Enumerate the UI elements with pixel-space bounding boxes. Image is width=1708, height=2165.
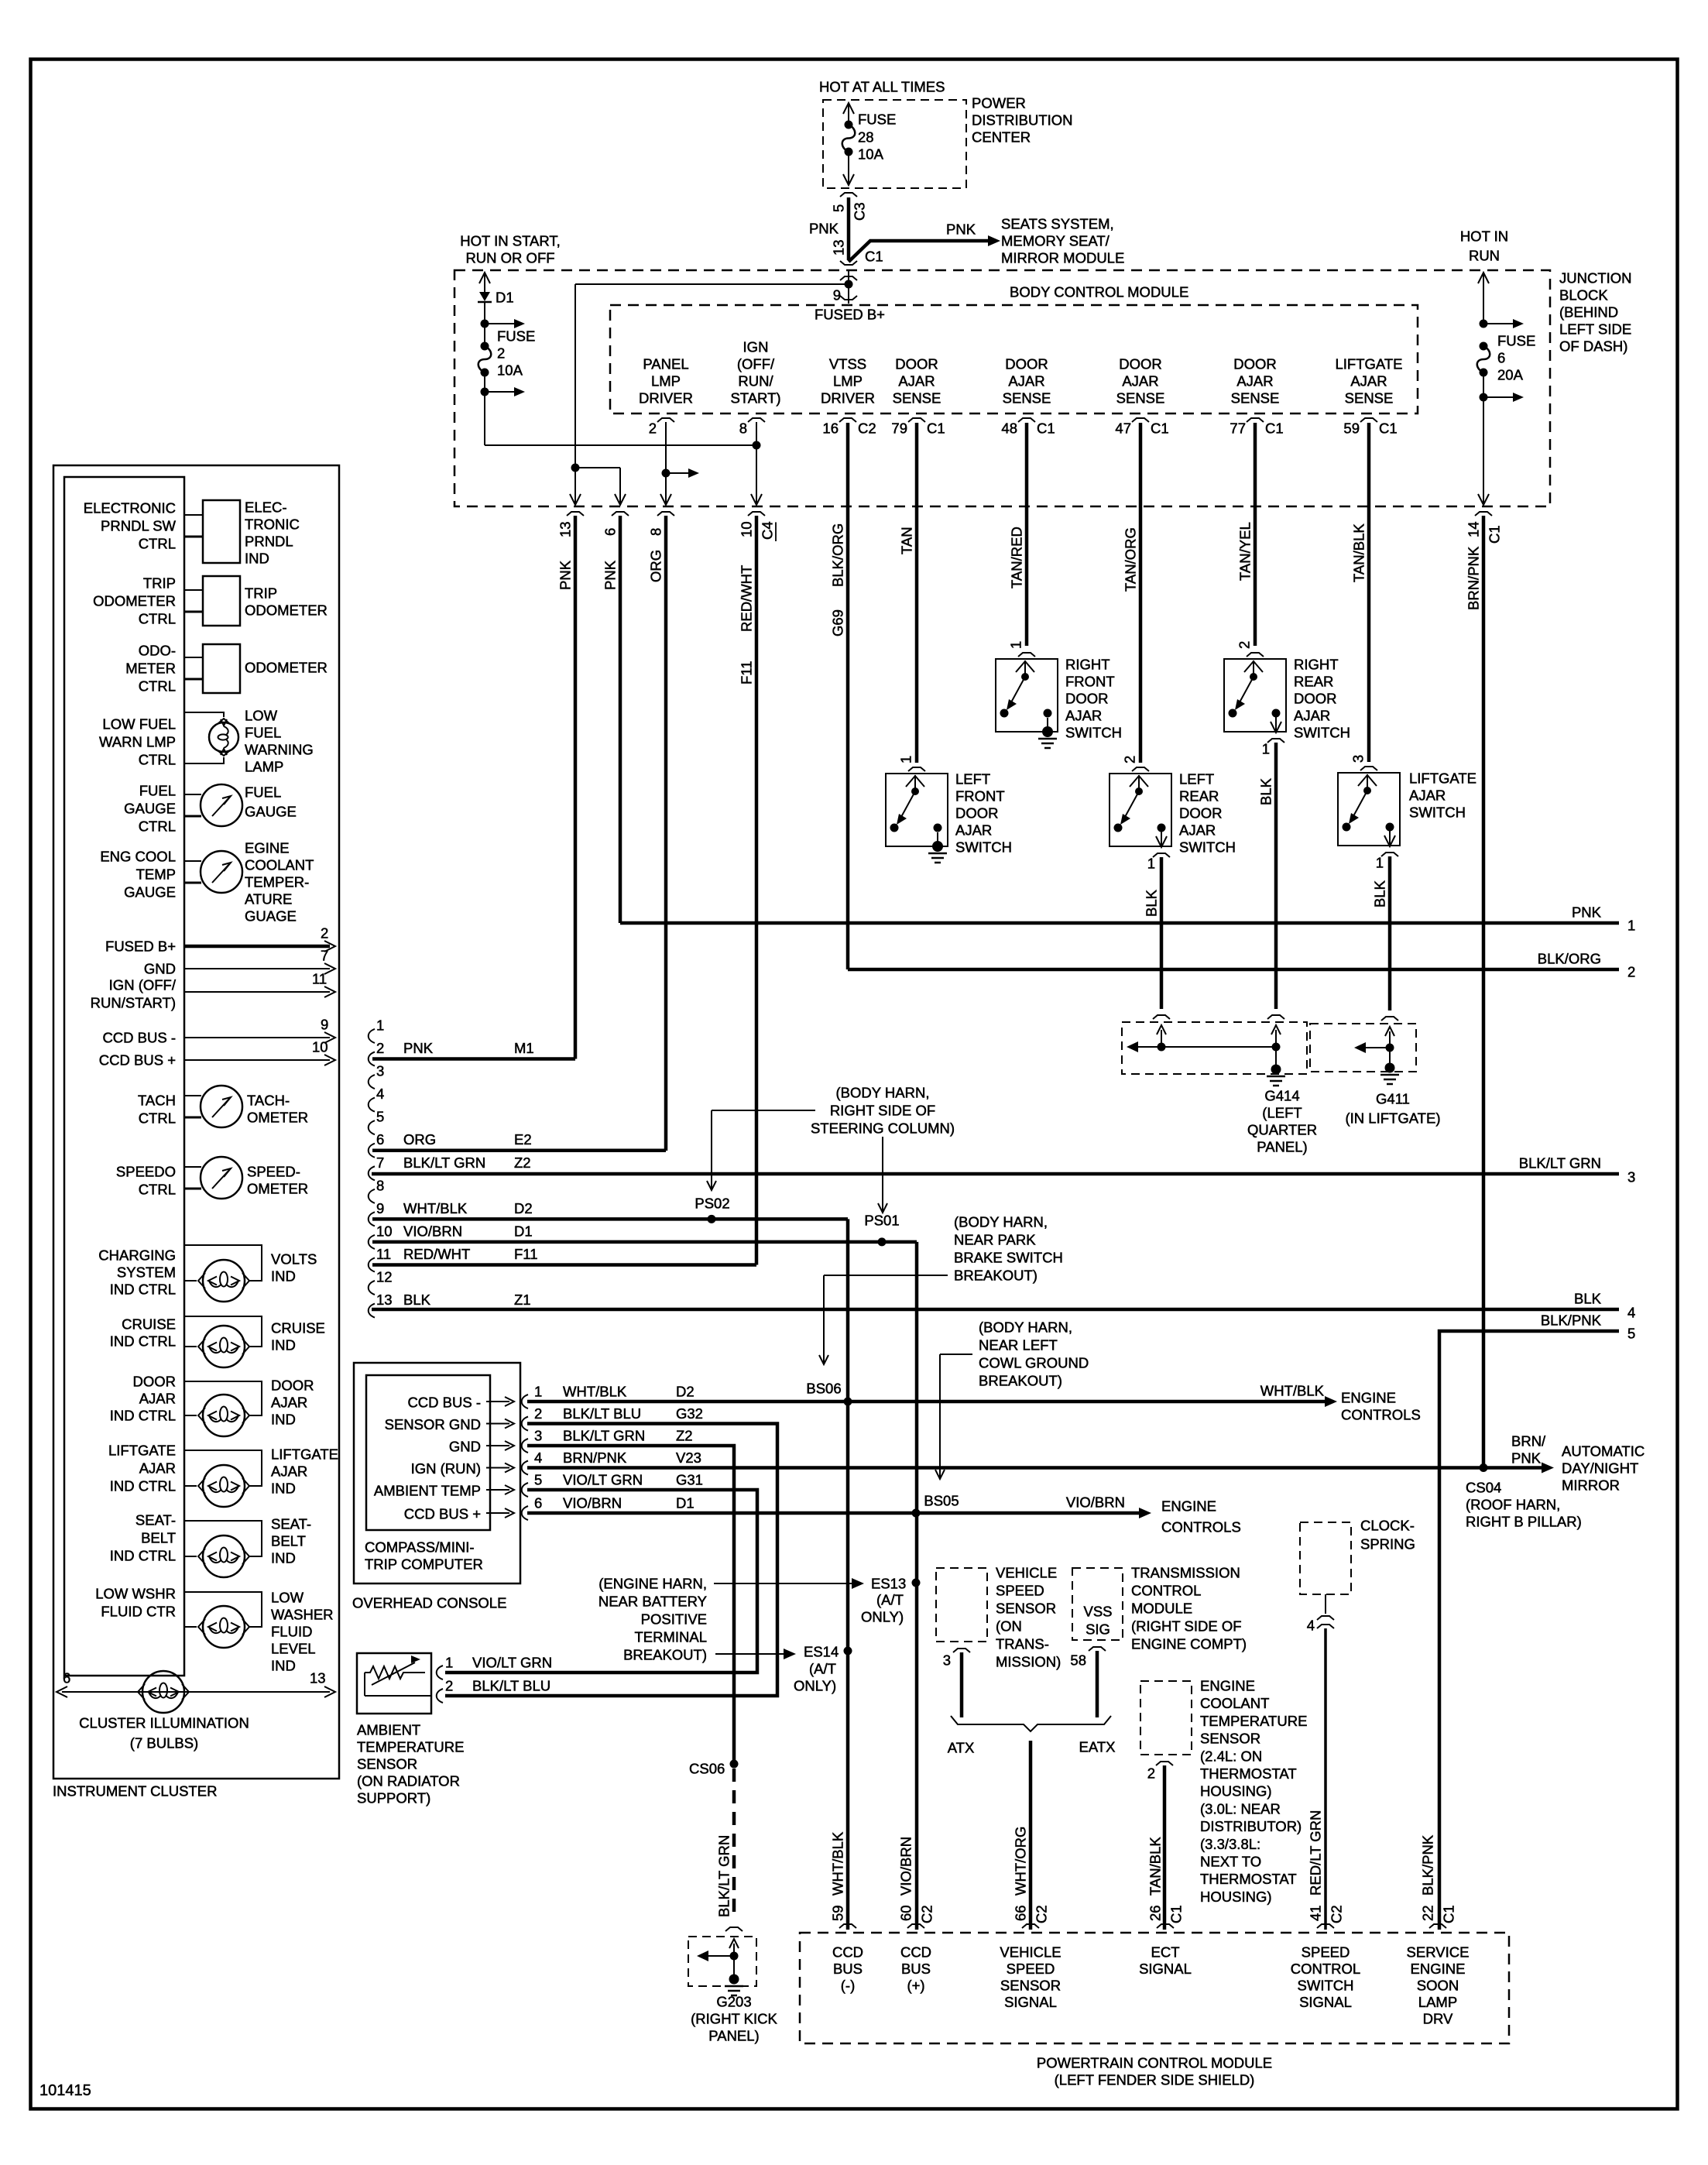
- svg-text:BLK/ORG: BLK/ORG: [830, 523, 846, 587]
- svg-text:DRIVER: DRIVER: [639, 390, 693, 407]
- svg-text:60: 60: [898, 1905, 914, 1921]
- svg-text:22: 22: [1420, 1905, 1436, 1921]
- svg-text:IND: IND: [271, 1481, 296, 1497]
- svg-text:GND: GND: [449, 1439, 481, 1455]
- svg-text:DOOR: DOOR: [1294, 691, 1337, 707]
- svg-text:FRONT: FRONT: [955, 788, 1005, 805]
- svg-text:(IN LIFTGATE): (IN LIFTGATE): [1346, 1110, 1441, 1127]
- svg-text:PNK: PNK: [809, 221, 839, 237]
- svg-text:SWITCH: SWITCH: [1294, 725, 1350, 741]
- svg-text:ONLY): ONLY): [861, 1609, 904, 1625]
- svg-text:G32: G32: [676, 1405, 703, 1422]
- svg-text:1: 1: [1376, 855, 1384, 871]
- svg-text:LMP: LMP: [651, 373, 681, 389]
- svg-text:DOOR: DOOR: [271, 1378, 314, 1394]
- svg-text:DOOR: DOOR: [895, 356, 938, 372]
- svg-text:V23: V23: [676, 1450, 701, 1466]
- svg-text:SPEED-: SPEED-: [247, 1164, 300, 1180]
- svg-text:11: 11: [312, 971, 327, 987]
- svg-text:4: 4: [376, 1086, 384, 1102]
- svg-text:VEHICLE: VEHICLE: [1000, 1944, 1061, 1961]
- svg-text:CLUSTER ILLUMINATION: CLUSTER ILLUMINATION: [79, 1715, 249, 1731]
- svg-text:INSTRUMENT CLUSTER: INSTRUMENT CLUSTER: [53, 1783, 217, 1800]
- svg-text:TRONIC: TRONIC: [245, 516, 300, 533]
- svg-text:5: 5: [534, 1472, 542, 1488]
- svg-text:SENSE: SENSE: [1345, 390, 1394, 407]
- svg-text:FUSED B+: FUSED B+: [105, 938, 176, 955]
- svg-text:PANEL): PANEL): [1257, 1139, 1307, 1155]
- svg-text:AJAR: AJAR: [139, 1391, 176, 1407]
- svg-text:IND CTRL: IND CTRL: [110, 1282, 176, 1298]
- svg-text:10A: 10A: [858, 146, 884, 163]
- svg-text:G414: G414: [1264, 1088, 1299, 1104]
- svg-text:2: 2: [649, 420, 657, 437]
- svg-text:IGN (OFF/: IGN (OFF/: [109, 977, 177, 993]
- svg-text:AJAR: AJAR: [1065, 708, 1102, 724]
- svg-text:POSITIVE: POSITIVE: [641, 1611, 707, 1628]
- svg-text:ECT: ECT: [1151, 1944, 1180, 1961]
- svg-text:TRIP: TRIP: [143, 575, 176, 592]
- svg-text:7: 7: [321, 948, 328, 964]
- svg-text:PNK: PNK: [557, 560, 574, 590]
- svg-text:RIGHT: RIGHT: [1065, 657, 1110, 673]
- svg-text:METER: METER: [125, 660, 176, 677]
- svg-text:CS04: CS04: [1466, 1480, 1501, 1496]
- svg-text:IND: IND: [245, 551, 269, 567]
- svg-text:ONLY): ONLY): [794, 1678, 836, 1694]
- svg-text:ODOMETER: ODOMETER: [93, 593, 176, 609]
- svg-text:CCD BUS +: CCD BUS +: [99, 1052, 176, 1069]
- svg-text:GAUGE: GAUGE: [124, 801, 176, 817]
- svg-text:FUEL: FUEL: [245, 725, 281, 741]
- svg-text:CTRL: CTRL: [139, 611, 176, 627]
- svg-text:G203: G203: [716, 1994, 751, 2010]
- svg-text:NEXT TO: NEXT TO: [1200, 1854, 1261, 1870]
- svg-text:1: 1: [898, 756, 914, 763]
- svg-text:TAN/ORG: TAN/ORG: [1123, 527, 1139, 592]
- svg-text:HOUSING): HOUSING): [1200, 1783, 1272, 1800]
- svg-text:Z2: Z2: [514, 1155, 531, 1171]
- svg-text:79: 79: [891, 420, 907, 437]
- svg-text:AJAR: AJAR: [1294, 708, 1330, 724]
- svg-text:20A: 20A: [1497, 367, 1524, 383]
- svg-text:(A/T: (A/T: [809, 1661, 836, 1677]
- svg-text:POWER: POWER: [972, 95, 1026, 112]
- svg-text:AJAR: AJAR: [1409, 787, 1446, 804]
- svg-text:Z2: Z2: [676, 1428, 693, 1444]
- svg-text:RED/WHT: RED/WHT: [403, 1246, 470, 1262]
- svg-text:CONTROL: CONTROL: [1131, 1583, 1201, 1599]
- svg-text:VIO/BRN: VIO/BRN: [563, 1495, 622, 1511]
- svg-text:C1: C1: [1151, 420, 1169, 437]
- svg-text:LEFT SIDE: LEFT SIDE: [1559, 321, 1631, 338]
- svg-text:HOUSING): HOUSING): [1200, 1889, 1272, 1905]
- svg-text:CRUISE: CRUISE: [271, 1320, 325, 1336]
- svg-text:(RIGHT SIDE OF: (RIGHT SIDE OF: [1131, 1618, 1242, 1635]
- svg-text:NEAR PARK: NEAR PARK: [954, 1232, 1036, 1248]
- svg-text:SPEED: SPEED: [996, 1583, 1044, 1599]
- svg-text:IND CTRL: IND CTRL: [110, 1548, 176, 1564]
- svg-text:66: 66: [1013, 1905, 1029, 1921]
- svg-text:ODO-: ODO-: [139, 643, 176, 659]
- svg-text:VTSS: VTSS: [829, 356, 866, 372]
- svg-text:MIRROR MODULE: MIRROR MODULE: [1001, 250, 1124, 266]
- svg-text:TAN: TAN: [899, 527, 915, 554]
- svg-text:BS06: BS06: [806, 1381, 841, 1397]
- svg-text:BLK: BLK: [1258, 777, 1274, 805]
- svg-text:SWITCH: SWITCH: [955, 839, 1012, 856]
- svg-text:BS05: BS05: [924, 1493, 959, 1509]
- svg-text:3: 3: [534, 1428, 542, 1444]
- svg-text:LOW: LOW: [271, 1590, 304, 1606]
- svg-text:(LEFT: (LEFT: [1262, 1105, 1302, 1121]
- svg-text:2: 2: [376, 1040, 384, 1056]
- svg-text:CCD BUS -: CCD BUS -: [407, 1395, 481, 1411]
- svg-text:SENSE: SENSE: [893, 390, 941, 407]
- svg-text:IGN: IGN: [743, 339, 769, 355]
- svg-text:16: 16: [822, 420, 839, 437]
- svg-text:D2: D2: [676, 1384, 695, 1400]
- svg-text:6: 6: [534, 1495, 542, 1511]
- svg-text:3: 3: [1350, 755, 1367, 763]
- svg-text:AMBIENT: AMBIENT: [357, 1722, 420, 1738]
- svg-text:CCD: CCD: [900, 1944, 931, 1961]
- svg-text:DOOR: DOOR: [1179, 805, 1223, 822]
- svg-text:77: 77: [1230, 420, 1246, 437]
- svg-text:D2: D2: [514, 1200, 533, 1216]
- svg-text:BLK/PNK: BLK/PNK: [1420, 1834, 1436, 1896]
- svg-text:(+): (+): [907, 1978, 924, 1994]
- svg-text:10: 10: [739, 521, 755, 537]
- svg-text:SUPPORT): SUPPORT): [357, 1790, 430, 1806]
- svg-text:ODOMETER: ODOMETER: [245, 602, 328, 619]
- svg-text:SIGNAL: SIGNAL: [1299, 1994, 1352, 2010]
- svg-text:START): START): [730, 390, 780, 407]
- svg-text:FUSE: FUSE: [1497, 333, 1535, 349]
- svg-text:(LEFT FENDER SIDE SHIELD): (LEFT FENDER SIDE SHIELD): [1055, 2072, 1255, 2088]
- svg-text:BRN/: BRN/: [1511, 1433, 1546, 1450]
- svg-text:EGINE: EGINE: [245, 840, 290, 856]
- svg-text:EATX: EATX: [1079, 1739, 1116, 1755]
- svg-text:13: 13: [310, 1670, 326, 1686]
- svg-text:BREAKOUT): BREAKOUT): [623, 1647, 707, 1663]
- svg-text:CONTROLS: CONTROLS: [1161, 1519, 1241, 1535]
- svg-text:DRIVER: DRIVER: [821, 390, 875, 407]
- svg-text:COOLANT: COOLANT: [245, 857, 314, 873]
- svg-text:CONTROLS: CONTROLS: [1341, 1407, 1421, 1423]
- svg-text:PANEL: PANEL: [643, 356, 688, 372]
- svg-text:TAN/BLK: TAN/BLK: [1351, 523, 1367, 582]
- svg-text:OVERHEAD CONSOLE: OVERHEAD CONSOLE: [352, 1595, 506, 1611]
- svg-text:BLOCK: BLOCK: [1559, 287, 1608, 304]
- svg-text:BUS: BUS: [833, 1961, 863, 1977]
- svg-text:BLK/LT GRN: BLK/LT GRN: [1519, 1155, 1601, 1172]
- svg-text:AUTOMATIC: AUTOMATIC: [1562, 1443, 1645, 1460]
- svg-text:IND: IND: [271, 1337, 296, 1354]
- svg-text:BLK/LT GRN: BLK/LT GRN: [716, 1835, 732, 1917]
- svg-text:FUSE: FUSE: [497, 328, 535, 345]
- svg-text:TEMPERATURE: TEMPERATURE: [1200, 1713, 1307, 1729]
- svg-text:9: 9: [321, 1017, 328, 1033]
- svg-text:TERMINAL: TERMINAL: [634, 1629, 707, 1645]
- svg-text:G31: G31: [676, 1472, 703, 1488]
- svg-text:FLUID: FLUID: [271, 1624, 312, 1640]
- svg-text:ES14: ES14: [804, 1644, 839, 1660]
- svg-text:HOT IN: HOT IN: [1460, 228, 1508, 245]
- svg-text:PS01: PS01: [864, 1213, 899, 1229]
- svg-text:ES13: ES13: [871, 1576, 906, 1592]
- svg-text:TAN/YEL: TAN/YEL: [1237, 522, 1254, 581]
- svg-text:LOW: LOW: [245, 708, 278, 724]
- svg-text:ENGINE: ENGINE: [1200, 1678, 1255, 1694]
- svg-text:BELT: BELT: [141, 1530, 176, 1546]
- svg-text:WHT/BLK: WHT/BLK: [1260, 1383, 1325, 1399]
- svg-text:101415: 101415: [39, 2082, 91, 2099]
- svg-text:VIO/BRN: VIO/BRN: [1066, 1494, 1125, 1511]
- svg-text:AJAR: AJAR: [898, 373, 935, 389]
- svg-text:COOLANT: COOLANT: [1200, 1695, 1269, 1711]
- svg-text:SENSOR: SENSOR: [1200, 1731, 1260, 1747]
- svg-text:BLK/ORG: BLK/ORG: [1538, 951, 1601, 967]
- svg-text:TACH-: TACH-: [247, 1093, 290, 1109]
- svg-text:(3.0L: NEAR: (3.0L: NEAR: [1200, 1800, 1281, 1817]
- svg-text:(ENGINE HARN,: (ENGINE HARN,: [598, 1576, 707, 1592]
- svg-text:BODY CONTROL MODULE: BODY CONTROL MODULE: [1010, 284, 1188, 300]
- svg-text:BLK/LT GRN: BLK/LT GRN: [403, 1155, 485, 1171]
- svg-text:RIGHT SIDE OF: RIGHT SIDE OF: [830, 1103, 935, 1119]
- svg-text:NEAR BATTERY: NEAR BATTERY: [598, 1594, 707, 1610]
- svg-text:C1: C1: [927, 420, 945, 437]
- svg-text:MEMORY SEAT/: MEMORY SEAT/: [1001, 233, 1110, 249]
- svg-text:DOOR: DOOR: [133, 1374, 177, 1390]
- svg-text:HOT AT ALL TIMES: HOT AT ALL TIMES: [819, 79, 945, 95]
- svg-text:PNK: PNK: [403, 1040, 434, 1056]
- svg-text:RUN/START): RUN/START): [91, 995, 176, 1011]
- svg-text:2: 2: [321, 925, 328, 942]
- svg-text:(ON: (ON: [996, 1618, 1022, 1635]
- svg-text:7: 7: [376, 1155, 384, 1171]
- svg-text:3: 3: [1627, 1169, 1635, 1185]
- svg-text:58: 58: [1070, 1652, 1086, 1669]
- svg-text:(BODY HARN,: (BODY HARN,: [979, 1319, 1072, 1336]
- svg-text:10: 10: [312, 1039, 328, 1055]
- svg-text:ELEC-: ELEC-: [245, 499, 287, 516]
- svg-text:TAN/BLK: TAN/BLK: [1147, 1837, 1164, 1896]
- svg-text:SYSTEM: SYSTEM: [117, 1264, 176, 1281]
- svg-text:(BODY HARN,: (BODY HARN,: [954, 1214, 1048, 1230]
- svg-text:WASHER: WASHER: [271, 1607, 334, 1623]
- svg-text:SIGNAL: SIGNAL: [1004, 1994, 1057, 2010]
- svg-text:14: 14: [1466, 521, 1482, 537]
- svg-text:SWITCH: SWITCH: [1065, 725, 1122, 741]
- svg-text:6: 6: [602, 528, 619, 536]
- svg-text:STEERING COLUMN): STEERING COLUMN): [811, 1120, 955, 1137]
- svg-text:RIGHT B PILLAR): RIGHT B PILLAR): [1466, 1514, 1582, 1530]
- svg-text:13: 13: [831, 239, 847, 256]
- svg-text:SPEED: SPEED: [1302, 1944, 1350, 1961]
- svg-text:TRIP: TRIP: [245, 585, 277, 602]
- svg-text:SPRING: SPRING: [1360, 1536, 1415, 1553]
- svg-text:D1: D1: [514, 1223, 533, 1239]
- svg-text:8: 8: [376, 1177, 384, 1193]
- svg-text:TRANSMISSION: TRANSMISSION: [1131, 1565, 1240, 1581]
- svg-text:4: 4: [1307, 1618, 1315, 1634]
- svg-text:CTRL: CTRL: [139, 1110, 176, 1127]
- svg-text:BREAKOUT): BREAKOUT): [954, 1268, 1037, 1284]
- svg-text:FLUID CTR: FLUID CTR: [101, 1604, 176, 1620]
- svg-text:TEMPERATURE: TEMPERATURE: [357, 1739, 464, 1755]
- svg-text:DOOR: DOOR: [1233, 356, 1277, 372]
- svg-text:MODULE: MODULE: [1131, 1601, 1192, 1617]
- svg-text:CCD BUS -: CCD BUS -: [102, 1030, 176, 1046]
- svg-text:GND: GND: [144, 961, 176, 977]
- svg-text:AJAR: AJAR: [1350, 373, 1387, 389]
- svg-text:C1: C1: [865, 249, 883, 265]
- svg-text:BLK: BLK: [403, 1292, 431, 1308]
- svg-text:BLK/LT GRN: BLK/LT GRN: [563, 1428, 645, 1444]
- svg-text:QUARTER: QUARTER: [1247, 1122, 1317, 1138]
- svg-text:6: 6: [1497, 350, 1505, 366]
- svg-text:C1: C1: [1487, 525, 1503, 544]
- svg-text:C1: C1: [1265, 420, 1284, 437]
- svg-text:BRN/PNK: BRN/PNK: [1466, 546, 1482, 610]
- svg-text:CTRL: CTRL: [139, 752, 176, 768]
- svg-text:SWITCH: SWITCH: [1298, 1978, 1354, 1994]
- svg-text:9: 9: [376, 1200, 384, 1216]
- svg-text:47: 47: [1115, 420, 1131, 437]
- svg-text:LIFTGATE: LIFTGATE: [108, 1443, 176, 1459]
- svg-text:13: 13: [557, 521, 574, 537]
- svg-text:SEAT-: SEAT-: [135, 1512, 176, 1529]
- svg-text:JUNCTION: JUNCTION: [1559, 270, 1632, 286]
- svg-text:CTRL: CTRL: [139, 818, 176, 835]
- svg-text:ENGINE: ENGINE: [1161, 1498, 1216, 1515]
- svg-text:MIRROR: MIRROR: [1562, 1477, 1620, 1494]
- svg-text:IND: IND: [271, 1550, 296, 1566]
- svg-text:(BODY HARN,: (BODY HARN,: [836, 1085, 930, 1101]
- svg-text:D1: D1: [496, 290, 514, 306]
- svg-text:TACH: TACH: [138, 1093, 176, 1109]
- svg-text:ENGINE COMPT): ENGINE COMPT): [1131, 1636, 1247, 1652]
- svg-text:IND CTRL: IND CTRL: [110, 1333, 176, 1350]
- svg-text:OF DASH): OF DASH): [1559, 338, 1627, 355]
- svg-text:2: 2: [1236, 641, 1253, 649]
- svg-text:TRANS-: TRANS-: [996, 1636, 1049, 1652]
- svg-text:59: 59: [830, 1905, 846, 1921]
- svg-text:C2: C2: [919, 1905, 935, 1923]
- svg-text:SENSE: SENSE: [1003, 390, 1051, 407]
- svg-text:CONTROL: CONTROL: [1291, 1961, 1360, 1977]
- svg-text:CHARGING: CHARGING: [98, 1247, 176, 1264]
- svg-text:59: 59: [1343, 420, 1360, 437]
- svg-text:2: 2: [1122, 756, 1138, 763]
- svg-text:SWITCH: SWITCH: [1179, 839, 1236, 856]
- svg-text:PNK: PNK: [1511, 1450, 1542, 1467]
- svg-text:AJAR: AJAR: [271, 1395, 307, 1411]
- svg-text:REAR: REAR: [1179, 788, 1219, 805]
- svg-text:AJAR: AJAR: [1236, 373, 1273, 389]
- svg-text:(ON RADIATOR: (ON RADIATOR: [357, 1773, 460, 1789]
- svg-text:COMPASS/MINI-: COMPASS/MINI-: [365, 1539, 475, 1556]
- svg-text:1: 1: [445, 1655, 453, 1671]
- svg-text:C2: C2: [858, 420, 876, 437]
- svg-text:BLK/LT BLU: BLK/LT BLU: [563, 1405, 641, 1422]
- svg-text:SOON: SOON: [1417, 1978, 1459, 1994]
- svg-text:GAUGE: GAUGE: [124, 884, 176, 901]
- svg-text:ENG COOL: ENG COOL: [100, 849, 176, 865]
- svg-text:12: 12: [376, 1269, 393, 1285]
- svg-text:WARNING: WARNING: [245, 742, 314, 758]
- svg-text:PNK: PNK: [1572, 904, 1602, 921]
- svg-text:2: 2: [1627, 964, 1635, 980]
- svg-text:NEAR LEFT: NEAR LEFT: [979, 1337, 1058, 1354]
- svg-text:SWITCH: SWITCH: [1409, 805, 1466, 821]
- svg-text:3: 3: [376, 1063, 384, 1079]
- svg-text:MISSION): MISSION): [996, 1654, 1061, 1670]
- svg-text:GUAGE: GUAGE: [245, 908, 297, 925]
- svg-text:BUS: BUS: [901, 1961, 931, 1977]
- svg-text:FUSE: FUSE: [858, 112, 896, 128]
- svg-text:SIGNAL: SIGNAL: [1139, 1961, 1192, 1977]
- svg-text:9: 9: [833, 287, 841, 304]
- svg-text:E2: E2: [514, 1131, 532, 1148]
- svg-text:OMETER: OMETER: [247, 1181, 308, 1197]
- svg-text:LAMP: LAMP: [245, 759, 283, 775]
- svg-text:LEFT: LEFT: [1179, 771, 1214, 787]
- svg-text:OMETER: OMETER: [247, 1110, 308, 1126]
- svg-text:REAR: REAR: [1294, 674, 1333, 690]
- svg-text:GAUGE: GAUGE: [245, 804, 297, 820]
- svg-text:1: 1: [1147, 856, 1155, 872]
- svg-text:COWL GROUND: COWL GROUND: [979, 1355, 1089, 1371]
- svg-text:48: 48: [1001, 420, 1017, 437]
- svg-text:LIFTGATE: LIFTGATE: [1409, 770, 1476, 787]
- svg-text:5: 5: [376, 1109, 384, 1125]
- svg-text:CENTER: CENTER: [972, 129, 1031, 146]
- svg-text:CTRL: CTRL: [139, 536, 176, 552]
- svg-text:2: 2: [1147, 1765, 1155, 1782]
- svg-text:BREAKOUT): BREAKOUT): [979, 1373, 1062, 1389]
- svg-text:POWERTRAIN CONTROL MODULE: POWERTRAIN CONTROL MODULE: [1037, 2055, 1272, 2071]
- svg-text:(BEHIND: (BEHIND: [1559, 304, 1618, 321]
- svg-text:VEHICLE: VEHICLE: [996, 1565, 1057, 1581]
- svg-text:(-): (-): [841, 1978, 855, 1994]
- svg-text:FUSED B+: FUSED B+: [815, 307, 885, 323]
- svg-text:RUN: RUN: [1469, 248, 1500, 264]
- svg-text:BLK: BLK: [1372, 880, 1388, 908]
- svg-text:6: 6: [376, 1131, 384, 1148]
- svg-text:ORG: ORG: [648, 550, 664, 582]
- svg-text:VIO/BRN: VIO/BRN: [403, 1223, 462, 1239]
- svg-text:TRIP COMPUTER: TRIP COMPUTER: [365, 1556, 483, 1573]
- svg-text:AMBIENT TEMP: AMBIENT TEMP: [374, 1483, 481, 1499]
- svg-text:DRV: DRV: [1423, 2011, 1453, 2027]
- svg-text:1: 1: [1262, 741, 1270, 757]
- svg-text:M1: M1: [514, 1040, 534, 1056]
- svg-text:IGN (RUN): IGN (RUN): [411, 1460, 481, 1477]
- svg-text:WHT/BLK: WHT/BLK: [563, 1384, 627, 1400]
- svg-text:SPEED: SPEED: [1007, 1961, 1055, 1977]
- svg-text:1: 1: [1627, 918, 1635, 934]
- svg-text:PNK: PNK: [946, 221, 976, 238]
- svg-text:LAMP: LAMP: [1418, 1994, 1457, 2010]
- svg-text:10: 10: [376, 1223, 393, 1239]
- svg-text:VIO/LT GRN: VIO/LT GRN: [563, 1472, 643, 1488]
- svg-text:8: 8: [648, 528, 664, 536]
- svg-text:F11: F11: [514, 1246, 538, 1262]
- svg-text:4: 4: [1627, 1305, 1635, 1321]
- svg-text:ATURE: ATURE: [245, 891, 292, 908]
